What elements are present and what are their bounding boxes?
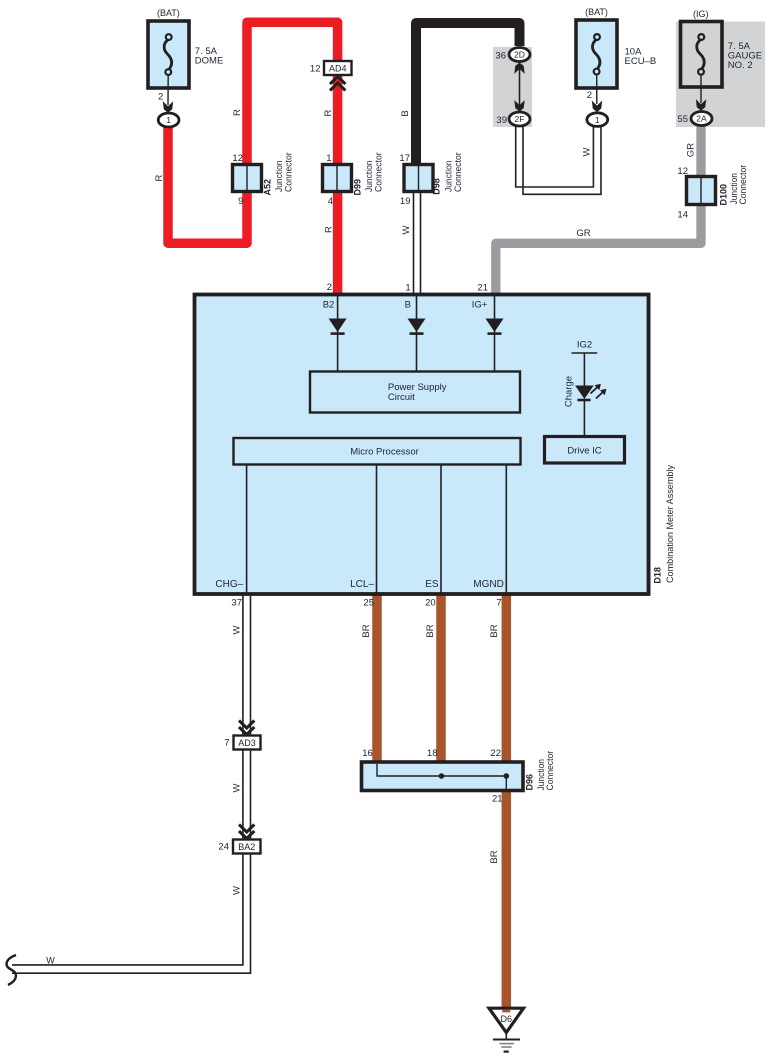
label R near circle 1 wire	[154, 174, 165, 181]
svg-text:19: 19	[400, 196, 411, 207]
wire BR (brown) D96 pin 21 to ground D6	[502, 788, 512, 1009]
LED charge lamp (diode + bar + light arrows)	[575, 384, 606, 400]
svg-text:R: R	[324, 226, 335, 233]
svg-text:(BAT): (BAT)	[157, 8, 180, 18]
power supply circuit box	[310, 372, 520, 413]
pins 12 / 14 of D100	[677, 166, 688, 221]
wire BR (brown) pin 7 to D96 pin 22	[502, 594, 512, 765]
label A52 junction connector	[263, 152, 294, 195]
pins 37 25 20 7 at D18 bottom	[231, 598, 501, 609]
svg-text:BR: BR	[489, 850, 500, 863]
drive IC box	[545, 437, 625, 464]
svg-text:B: B	[405, 300, 411, 311]
fuse DOME 7.5A (BAT)	[148, 21, 189, 105]
svg-text:W: W	[232, 886, 243, 895]
svg-text:7: 7	[224, 738, 229, 749]
svg-text:22: 22	[490, 748, 501, 759]
wire break squiggle at left end	[7, 955, 16, 985]
svg-text:Junction: Junction	[364, 161, 374, 193]
ground D6	[489, 1008, 524, 1051]
svg-text:D98: D98	[432, 178, 442, 195]
node B2: wire inside D18 from pin 2 to power supply circuit with diode	[329, 295, 347, 372]
svg-text:9: 9	[238, 196, 243, 207]
wire from LED to Drive IC	[583, 400, 585, 437]
wire CHG- inside D18 from micro processor to pin 37	[246, 464, 248, 594]
svg-text:37: 37	[231, 598, 242, 609]
svg-text:25: 25	[363, 598, 374, 609]
wire W (white, double line) from D98 pin 19 to pin 1 of D18	[414, 192, 421, 294]
svg-text:21: 21	[492, 794, 503, 805]
label Drive IC	[567, 446, 601, 457]
wire MGND inside D18 from micro processor to pin 7	[505, 464, 507, 594]
arrow into circle 1 (DOME)	[163, 101, 173, 112]
pin 1 at D18 top (B)	[405, 283, 410, 294]
label 7.5A DOME	[195, 46, 224, 67]
label W below BA2	[232, 886, 243, 895]
junction connector D99	[323, 165, 352, 192]
svg-text:AD4: AD4	[329, 64, 347, 74]
pin 24 of BA2	[218, 842, 229, 853]
svg-text:BR: BR	[361, 624, 372, 637]
label GR near D100 wire	[686, 143, 697, 157]
svg-text:14: 14	[677, 210, 688, 221]
labels B2 B IG+ inside D18	[323, 300, 488, 311]
svg-text:D99: D99	[353, 179, 363, 196]
label W between AD3 and BA2	[232, 783, 243, 792]
connector BA2 with chevrons	[233, 825, 261, 854]
svg-text:R: R	[323, 109, 334, 116]
svg-text:R: R	[154, 174, 165, 181]
svg-text:Junction: Junction	[274, 161, 284, 193]
connector AD4 with chevrons	[324, 61, 352, 91]
svg-text:W: W	[232, 783, 243, 792]
node IG+: wire inside D18 from pin 21 to power supply circuit with diode	[486, 295, 504, 372]
svg-text:AD3: AD3	[238, 738, 256, 748]
wire LCL- inside D18 from micro processor to pin 25	[376, 464, 378, 594]
connector AD3 with chevrons	[234, 721, 261, 750]
svg-text:Circuit: Circuit	[388, 392, 415, 403]
svg-text:Connector: Connector	[374, 152, 384, 192]
svg-text:2F: 2F	[515, 114, 525, 124]
pin 7 of AD3	[224, 738, 229, 749]
svg-text:36: 36	[495, 51, 506, 62]
terminal circle 1 (ECU-B)	[587, 113, 608, 127]
svg-text:A52: A52	[263, 179, 273, 196]
terminal 2F	[509, 112, 530, 126]
svg-text:W: W	[46, 956, 55, 966]
svg-text:18: 18	[427, 748, 438, 759]
svg-text:Combination Meter Assembly: Combination Meter Assembly	[665, 465, 675, 583]
svg-text:12: 12	[677, 166, 688, 177]
svg-text:39: 39	[496, 115, 507, 126]
label W near D98 lower wire	[401, 225, 412, 234]
svg-text:Connector: Connector	[738, 165, 748, 205]
label (BAT) ECU-B	[585, 7, 608, 17]
svg-text:2: 2	[158, 92, 163, 103]
svg-text:(IG): (IG)	[693, 9, 709, 19]
pins 16 18 22 of D96	[362, 748, 501, 759]
label (BAT) DOME	[157, 8, 180, 18]
svg-text:W: W	[401, 225, 412, 234]
svg-text:(BAT): (BAT)	[585, 7, 608, 17]
svg-text:Micro Processor: Micro Processor	[350, 447, 419, 458]
pin 55 of 2A	[677, 114, 688, 125]
svg-text:D96: D96	[525, 774, 535, 791]
svg-text:7: 7	[496, 598, 501, 609]
svg-text:2: 2	[327, 282, 332, 293]
shield panel behind 2D/2F connectors	[493, 47, 532, 127]
svg-text:BA2: BA2	[238, 842, 255, 852]
svg-text:17: 17	[399, 153, 410, 164]
node IG2 terminal bar	[572, 352, 598, 354]
svg-text:BR: BR	[489, 624, 500, 637]
svg-text:IG+: IG+	[472, 300, 488, 311]
terminal 2A	[691, 112, 712, 126]
svg-text:24: 24	[218, 842, 229, 853]
label W near ECU-B wire	[582, 147, 593, 156]
svg-text:IG2: IG2	[577, 340, 592, 351]
svg-text:MGND: MGND	[473, 579, 504, 590]
svg-text:D100: D100	[719, 184, 729, 206]
label R below D99	[324, 226, 335, 233]
wire GR (gray) from 2A through D100 to pin 21 of D18	[496, 125, 701, 295]
pins 36 / 39 of 2D 2F	[495, 51, 507, 127]
label D100 junction connector	[719, 165, 749, 206]
svg-text:Connector: Connector	[284, 152, 294, 192]
link wire between 2D and 2F with arrows	[514, 63, 524, 112]
label Charge (rotated)	[564, 376, 575, 407]
wire ES inside D18 from micro processor to pin 20	[440, 464, 442, 594]
label D96 junction connector	[525, 751, 556, 791]
label IG2	[577, 340, 592, 351]
fuse GAUGE NO.2 7.5A (IG)	[681, 22, 723, 104]
label BR below D96	[489, 850, 500, 863]
wire W (white, double line) U-shape from 2F to circle 1 of ECU-B	[516, 125, 601, 194]
junction connector A52	[233, 165, 262, 192]
arrow into 2A	[696, 99, 706, 110]
pin 21 at D18 top (IG+)	[477, 283, 488, 294]
pins 17 / 19 of D98	[399, 153, 410, 207]
junction connector D100	[687, 177, 716, 205]
label GR on horizontal gray wire	[576, 228, 590, 239]
wire BR (brown) pin 25 to D96 pin 16	[372, 594, 382, 765]
svg-text:GR: GR	[686, 143, 697, 157]
label (IG)	[693, 9, 709, 19]
wire BR (brown) pin 20 to D96 pin 18	[436, 594, 446, 765]
svg-text:LCL–: LCL–	[350, 579, 374, 590]
micro processor box	[234, 438, 521, 465]
junction connector D96	[362, 762, 524, 791]
svg-text:NO. 2: NO. 2	[728, 60, 753, 71]
pin 2 at D18 top (B2)	[327, 282, 332, 293]
svg-text:ECU–B: ECU–B	[625, 56, 657, 67]
arrow into circle 1 (ECU-B)	[592, 101, 602, 112]
pin 2 of DOME fuse	[158, 92, 163, 103]
label B near black wire	[400, 110, 411, 116]
svg-text:GR: GR	[576, 228, 590, 239]
fuse ECU-B 10A (BAT)	[576, 20, 617, 104]
svg-text:W: W	[231, 625, 242, 634]
svg-text:Connector: Connector	[545, 751, 555, 791]
labels BR below pins 25 20 7	[361, 624, 500, 637]
wire W (white, double line) from pin 37 down through AD3, BA2 and left to break	[12, 594, 251, 973]
pins 12 / 9 of A52	[232, 153, 243, 207]
svg-text:1: 1	[166, 115, 171, 125]
svg-text:ES: ES	[425, 579, 439, 590]
svg-text:2D: 2D	[514, 50, 525, 60]
svg-text:2: 2	[587, 90, 592, 101]
svg-text:Junction: Junction	[444, 161, 454, 193]
svg-text:1: 1	[405, 283, 410, 294]
svg-text:Charge: Charge	[564, 376, 575, 407]
label D98 junction connector	[432, 152, 464, 194]
svg-text:4: 4	[328, 196, 333, 207]
shield panel behind IG fuse	[676, 22, 765, 128]
svg-text:Connector: Connector	[453, 152, 463, 192]
wire B (black) from top to D98	[416, 23, 520, 190]
svg-text:20: 20	[425, 598, 436, 609]
pin 12 of AD4	[310, 64, 321, 75]
svg-text:R: R	[232, 109, 243, 116]
svg-text:B: B	[400, 110, 411, 116]
label W below pin 37	[231, 625, 242, 634]
pins 1 / 4 of D99	[326, 153, 333, 207]
label D18 combination meter assembly	[652, 465, 675, 584]
svg-text:BR: BR	[425, 624, 436, 637]
label D99 junction connector	[353, 152, 384, 195]
svg-text:CHG–: CHG–	[215, 579, 243, 590]
svg-text:1: 1	[595, 115, 600, 125]
svg-text:1: 1	[326, 153, 331, 164]
big box fill: combination meter assembly D18	[193, 293, 651, 596]
svg-text:W: W	[582, 147, 593, 156]
svg-text:12: 12	[310, 64, 321, 75]
terminal circle 1 (DOME)	[158, 113, 179, 127]
svg-text:55: 55	[677, 114, 688, 125]
labels CHG- LCL- ES MGND inside D18	[215, 579, 503, 590]
svg-text:21: 21	[477, 283, 488, 294]
label micro processor	[350, 447, 419, 458]
svg-text:Drive IC: Drive IC	[567, 446, 601, 457]
terminal 2D	[509, 48, 530, 62]
label 7.5A GAUGE NO.2	[728, 41, 762, 71]
svg-text:12: 12	[232, 153, 243, 164]
label W near break	[46, 956, 55, 966]
svg-text:16: 16	[362, 748, 373, 759]
pin 21 of D96	[492, 794, 503, 805]
label R near A52 wire top	[232, 109, 243, 116]
big box border: combination meter assembly D18	[195, 295, 649, 595]
node B: wire inside D18 from pin 1 to power supply circuit with diode	[408, 295, 426, 372]
label R near D99 wire top	[323, 109, 334, 116]
svg-text:D6: D6	[501, 1014, 513, 1024]
pin 2 of ECU-B fuse	[587, 90, 592, 101]
svg-text:DOME: DOME	[195, 56, 224, 67]
junction connector D98	[404, 165, 433, 192]
wire R (red) from circle 1 through A52, AD4, D99 to pin 2 of D18	[168, 22, 338, 295]
svg-text:2A: 2A	[696, 114, 707, 124]
label power supply circuit	[388, 382, 447, 403]
svg-text:D18: D18	[652, 567, 662, 584]
wire from IG2 bar to LED	[583, 353, 585, 386]
label 10A ECU-B	[625, 47, 657, 68]
svg-text:B2: B2	[323, 300, 335, 311]
